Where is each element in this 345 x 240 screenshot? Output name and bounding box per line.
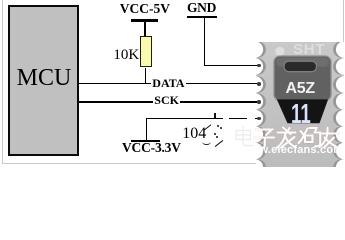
sensor package — [274, 56, 331, 101]
index dot — [275, 46, 284, 55]
red glow pass — [255, 127, 338, 147]
GND rail bar — [187, 16, 217, 18]
MCU U1 — [8, 5, 79, 156]
VCC-3.3V rail bar — [131, 140, 161, 142]
chip photo SHT11 — [256, 42, 344, 167]
wire VCC-3.3V to pin 4 — [146, 118, 260, 120]
GND label — [180, 0, 224, 16]
white pass — [255, 127, 338, 147]
VCC-3.3V label — [122, 140, 181, 156]
VCC-5V rail bar — [131, 19, 158, 21]
sensor window — [284, 61, 317, 71]
watermark text row 2 — [242, 144, 343, 156]
DATA net label — [151, 76, 185, 91]
wire resistor to DATA — [145, 68, 147, 84]
pin 4 VDD junction dot — [257, 117, 261, 121]
capacitor C1 value 104 — [182, 125, 206, 143]
wire DATA MCU to pin 2 — [79, 83, 260, 85]
MCU label — [16, 65, 72, 92]
pin notches left — [246, 41, 265, 176]
svg-text:11: 11 — [291, 98, 311, 128]
pin 1 GND junction dot — [257, 64, 261, 68]
watermark text row 1 (drawn glyphs) — [233, 126, 345, 150]
10K value label — [113, 47, 139, 64]
ghost dian — [236, 126, 253, 145]
sensor body plate — [256, 42, 343, 167]
wire GND to pin 1 — [204, 65, 260, 67]
wire SCK MCU to pin 3 — [79, 101, 260, 103]
resistor R1 10K — [140, 36, 152, 68]
VCC-5V label — [120, 1, 170, 17]
watermark logo scribble fragments — [214, 113, 216, 118]
wire VCC-5V to resistor — [144, 21, 146, 36]
package bottom block — [276, 99, 327, 123]
watermark white blob erasing VCC wire — [223, 113, 230, 124]
pin notches right — [333, 41, 345, 176]
svg-text:A5Z: A5Z — [285, 80, 315, 97]
wire VCC-3.3V vertical — [146, 118, 148, 141]
SCK net label — [153, 93, 181, 108]
wire GND vertical — [204, 18, 206, 67]
pin 2 DATA junction dot — [257, 82, 261, 86]
pin 3 SCK junction dot — [257, 100, 261, 104]
outer frame — [2, 0, 344, 164]
